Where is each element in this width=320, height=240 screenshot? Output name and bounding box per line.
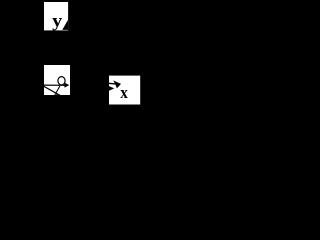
trajectory arrowhead — [64, 83, 69, 88]
svg-text:x: x — [120, 83, 128, 102]
label box y — [44, 2, 68, 30]
diagonal line — [44, 86, 62, 96]
loop circle — [58, 77, 65, 85]
trajectory sketch box — [44, 65, 70, 95]
trajectory baseline (horizontal line with arrow) — [44, 84, 66, 86]
y-axis arrowhead (left half visible over y box) — [62, 20, 68, 30]
second diagonal (trajectory tail) — [56, 86, 60, 94]
trajectory arrowhead at x label (clipped by box left edge) — [109, 86, 115, 91]
bottom hook dash — [55, 93, 59, 95]
svg-text:y: y — [52, 10, 62, 30]
x-axis arrowhead — [113, 80, 121, 88]
label box x — [109, 76, 140, 105]
x-axis line — [109, 82, 116, 85]
